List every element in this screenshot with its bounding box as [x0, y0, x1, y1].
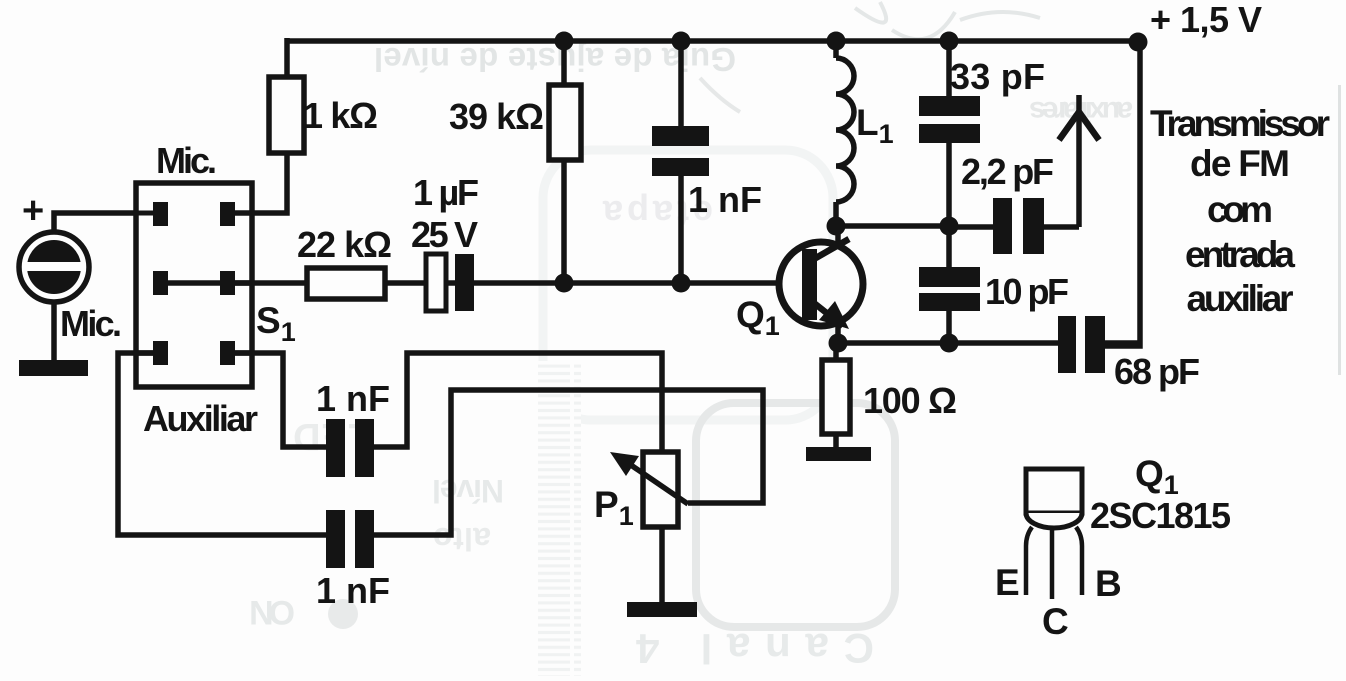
label E pin [995, 562, 1020, 603]
wire lower 1nF to P1 wiper net [374, 390, 763, 535]
svg-text:Auxiliar: Auxiliar [143, 398, 258, 439]
node junction L1 / collector [827, 217, 846, 236]
wire +1,5V top supply rail [285, 38, 1140, 44]
switch contact bottom-left [136, 341, 168, 365]
capacitor 1 µF electrolytic: positive plate [455, 254, 474, 311]
capacitor 33 pF plates [919, 96, 980, 143]
svg-text:68 pF: 68 pF [1114, 351, 1200, 392]
svg-text:1 nF: 1 nF [316, 378, 390, 419]
wire P1 bottom to ground [659, 527, 665, 604]
node junction top rail / right drop [1129, 33, 1148, 52]
label 1 nF (bias) [688, 179, 762, 220]
wire right drop from +1,5V rail [1102, 41, 1140, 346]
wire middle row: switch to 22k to 1uF to Q1 base [235, 280, 806, 286]
node junction top rail / 39k [555, 32, 574, 51]
label 2SC1815 [1090, 495, 1231, 536]
svg-text:+ 1,5 V: + 1,5 V [1150, 0, 1262, 40]
wire switch middle pole bar [166, 280, 223, 286]
label 1 kΩ [303, 95, 378, 136]
svg-text:25 V: 25 V [411, 214, 478, 255]
svg-text:de FM: de FM [1190, 143, 1290, 184]
svg-text:1 nF: 1 nF [316, 570, 390, 611]
node junction emitter / 100R / 68pF row [829, 334, 848, 353]
wire 39k top lead [561, 41, 567, 85]
node junction mid row / 39k [555, 274, 574, 293]
svg-text:100 Ω: 100 Ω [863, 380, 957, 421]
switch contact top-left [136, 202, 168, 226]
transistor package leg E [1026, 527, 1032, 595]
transistor package leg C [1050, 529, 1055, 599]
wire switch bottom-right contact to upper 1nF [235, 353, 326, 447]
svg-text:alto: alto [433, 521, 491, 557]
node junction top rail / L1 [827, 32, 846, 51]
node junction mid row / 1nF [672, 274, 691, 293]
wire mic plus lead to switch [54, 213, 136, 234]
svg-text:Nível: Nível [432, 473, 504, 509]
wire 100R bottom lead [833, 434, 839, 449]
wire collector row L1 to 33pF/2,2pF node [836, 223, 949, 229]
label title Transmissor de FM com entrada auxiliar [1150, 103, 1330, 319]
antenna [1059, 95, 1099, 227]
resistor 100 Ω [822, 360, 850, 434]
svg-text:2,2 pF: 2,2 pF [961, 151, 1054, 192]
transistor Q1 package outline (TO-92) [1026, 469, 1082, 528]
label 1 nF (upper) [316, 378, 390, 419]
node junction top rail / 33pF [940, 32, 959, 51]
potentiometer P1 [610, 452, 688, 527]
ground (emitter resistor) [806, 447, 871, 461]
svg-text:2SC1815: 2SC1815 [1090, 495, 1231, 536]
wire 100R top lead [833, 343, 839, 360]
svg-text:22 kΩ: 22 kΩ [297, 224, 392, 265]
label 39 kΩ [449, 96, 544, 137]
wire 1nF (bias) bottom lead [678, 176, 684, 283]
svg-text:39 kΩ: 39 kΩ [449, 96, 544, 137]
label Q1 (package) [1135, 453, 1179, 500]
label B pin [1095, 563, 1122, 604]
node junction top rail / 1nF [672, 32, 691, 51]
ground (P1) [627, 602, 697, 617]
svg-text:1 nF: 1 nF [688, 179, 762, 220]
switch contact bottom-right [220, 341, 252, 365]
label 25 V [411, 214, 478, 255]
node junction 10pF / emitter row [940, 334, 959, 353]
resistor 1 kΩ [269, 77, 304, 153]
switch contact middle-right [220, 271, 252, 295]
wire mic to ground [51, 300, 57, 362]
label 22 kΩ [297, 224, 392, 265]
wire 1k resistor top lead [284, 38, 290, 77]
label + (mic polarity) [22, 190, 44, 232]
label 10 pF [985, 271, 1069, 312]
wire 33pF bottom lead [946, 143, 952, 226]
wire 33pF top lead [946, 41, 952, 96]
svg-text:10 pF: 10 pF [985, 271, 1069, 312]
label 100 Ω [863, 380, 957, 421]
svg-text:entrada: entrada [1185, 234, 1295, 275]
capacitor 68 pF plates [1058, 316, 1105, 373]
label Auxiliar [143, 398, 258, 439]
label C pin [1042, 601, 1069, 642]
wire 39k bottom lead [561, 159, 567, 283]
capacitor 1 nF (bias) plates [652, 126, 709, 176]
wire Q1 collector to node [835, 226, 841, 242]
svg-text:1 kΩ: 1 kΩ [303, 95, 378, 136]
wire 2,2pF to antenna [1044, 224, 1079, 230]
label 2,2 pF [961, 151, 1054, 192]
svg-text:Mic.: Mic. [156, 140, 217, 181]
label S1 [256, 300, 296, 347]
label 33 pF [950, 56, 1045, 97]
ground (microphone) [19, 360, 88, 376]
inductor L1 [836, 38, 854, 226]
svg-text:33 pF: 33 pF [950, 56, 1045, 97]
wire emitter row to 68pF [838, 340, 1058, 346]
switch S1 box [136, 183, 252, 387]
svg-text:auxiliar: auxiliar [1187, 278, 1294, 319]
capacitor 10 pF plates [919, 267, 980, 311]
wire 1k resistor bottom lead to switch top-right contact [233, 152, 287, 213]
switch contact middle-left [153, 271, 168, 295]
wire 1nF (bias) top lead [678, 41, 684, 126]
svg-text:Transmissor: Transmissor [1150, 103, 1330, 144]
svg-text:Mic.: Mic. [60, 303, 122, 344]
wire Q1 emitter lead [835, 326, 841, 343]
wire 10pF bottom lead [946, 311, 952, 343]
label 1 µF [413, 172, 479, 213]
svg-text:+: + [22, 190, 44, 232]
switch contact top-right [220, 202, 252, 226]
capacitor 1 nF (auxiliar lower) plates [326, 510, 374, 568]
svg-text:C: C [1042, 601, 1069, 642]
label Q1 (symbol) [736, 294, 780, 341]
wire 10pF top lead [946, 226, 952, 267]
transistor package leg B [1076, 527, 1082, 595]
node junction 33pF / 10pF / 2,2pF [940, 217, 959, 236]
svg-text:com: com [1207, 189, 1273, 230]
resistor 39 kΩ [549, 85, 581, 160]
label Mic. (microphone) [60, 303, 122, 344]
label P1 [594, 484, 634, 531]
transistor Q1 symbol [779, 239, 863, 329]
wire switch bottom-left contact to lower 1nF [118, 353, 326, 535]
wire upper 1nF to P1 top [374, 353, 662, 452]
label L1 [856, 102, 894, 149]
label 1 nF (lower) [316, 570, 390, 611]
wire node to 2,2pF [949, 224, 993, 230]
label 68 pF [1114, 351, 1200, 392]
microphone Mic. electret symbol [19, 232, 89, 302]
capacitor 1 nF (auxiliar upper) plates [326, 419, 374, 477]
svg-text:B: B [1095, 563, 1122, 604]
label +1,5 V battery text [1150, 0, 1262, 40]
svg-text:ON: ON [249, 593, 295, 631]
resistor 22 kΩ [307, 268, 385, 299]
svg-text:E: E [995, 562, 1020, 603]
svg-text:1 µF: 1 µF [413, 172, 479, 213]
wire 68pF to right drop [1105, 340, 1140, 346]
capacitor 1 µF electrolytic: negative plate [426, 254, 446, 311]
capacitor 2,2 pF plates [993, 198, 1044, 254]
label Mic. (switch position) [156, 140, 217, 181]
